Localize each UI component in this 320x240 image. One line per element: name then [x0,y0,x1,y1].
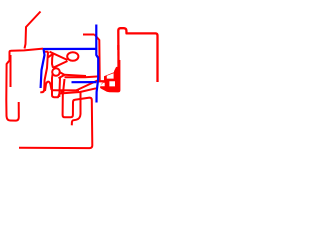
wire B2 blue left vertical [41,49,45,88]
wire W3 red left vertical [10,55,12,87]
wire W4 red U shape left [6,61,18,121]
wire W18 red U and staple long path [19,79,92,148]
wire B1 blue long horizontal [43,48,97,50]
wire W17 red vertical V1 [58,78,61,97]
wire W15 red rising long horizontal [60,88,97,93]
wire W9 red fork horizontal [45,51,49,53]
wire W2 red horizontal with left corner [10,49,44,62]
component L2 red loop lower (6-loop) [52,68,60,76]
wire W19 red mid horizontal [65,75,99,78]
node N1 red folder-tab outline top-right [118,28,157,82]
wire W7 red diagonal to lower-left [76,80,99,91]
wire W16 red bowtie upper diagonal [59,72,65,75]
wire W11 red peak triangle [48,54,53,68]
node J1 red junction dot [61,90,65,94]
node N2 red scribble cluster (loops mass) [96,60,120,92]
wire W22 red arch [45,82,52,91]
wire B3 blue long vertical [96,25,98,103]
wire W21 red horizontal Ha [52,89,79,91]
wire W8 red long vertical right-mid [117,45,119,66]
wire W1 red diagonal top-left [25,12,41,49]
wire W14 red 6-loop tail down and hook [52,74,60,97]
component L1 red loop upper [67,52,78,61]
wire W20 red hang vertical with curve [72,93,81,126]
wire W19b red upper horizontal from bowtie [65,75,87,76]
wire W5 red horizontal mid-top [83,34,95,36]
wire W6 red vertical from diagonal [95,35,100,81]
wire W12 red big diagonal [50,52,68,60]
wire W10 red descender J [40,52,48,92]
wire W16b red bowtie lower diagonal [59,75,65,78]
wire W13 red exit diagonal [53,61,68,68]
wire B4 blue mid horizontal [72,81,97,83]
